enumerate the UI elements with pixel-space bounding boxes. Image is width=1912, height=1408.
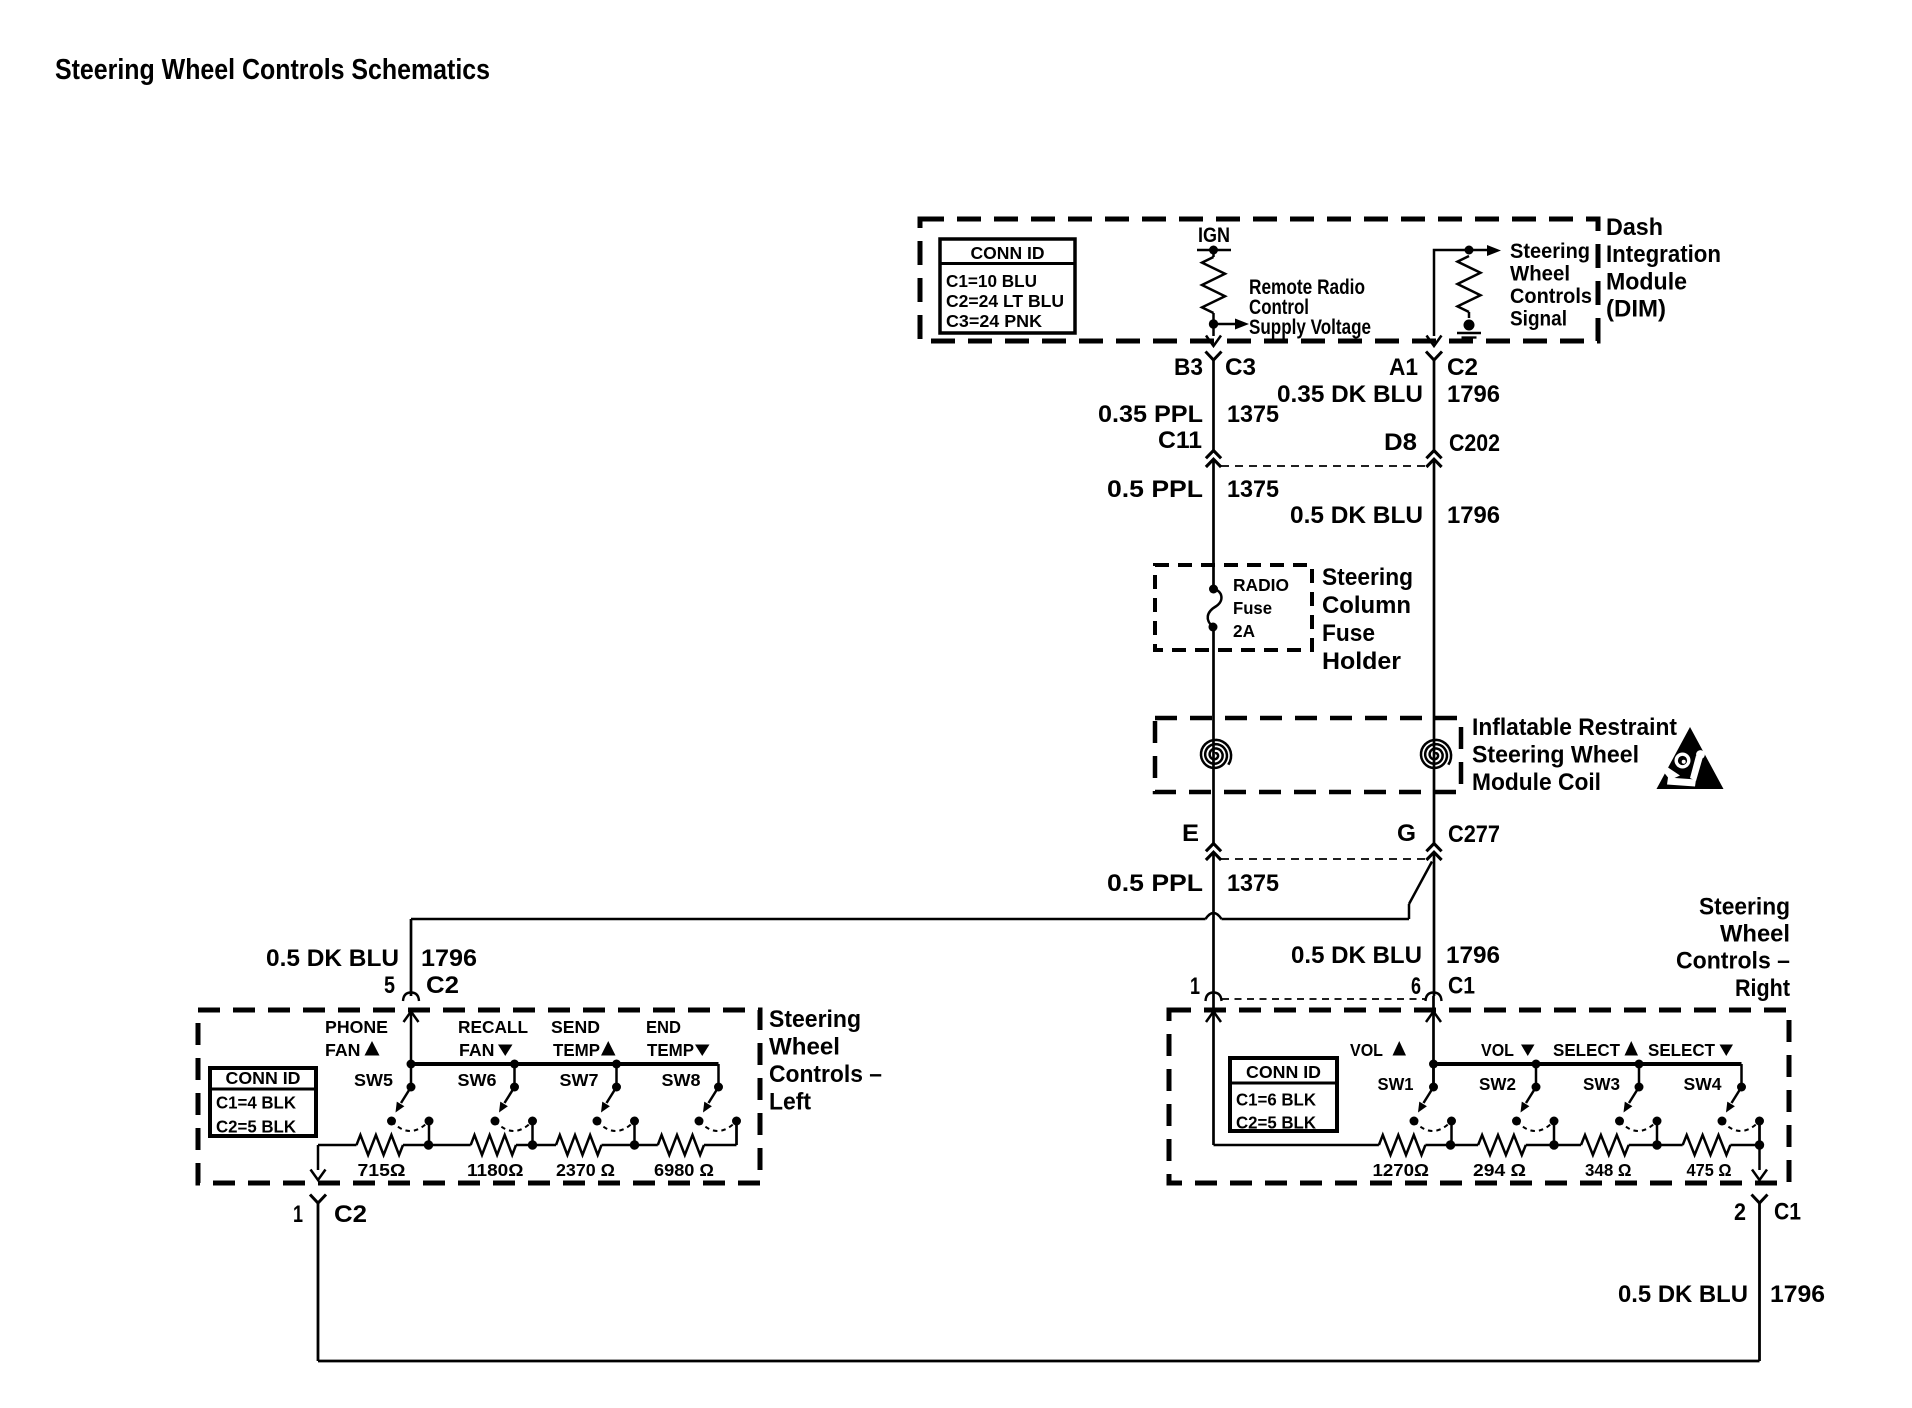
svg-text:6980 Ω: 6980 Ω (654, 1160, 714, 1180)
svg-text:0.5 DK BLU: 0.5 DK BLU (1291, 942, 1422, 969)
svg-text:RADIO: RADIO (1233, 575, 1289, 595)
svg-text:A1: A1 (1389, 354, 1418, 381)
svg-text:Steering Wheel: Steering Wheel (1472, 742, 1639, 769)
svg-text:294 Ω: 294 Ω (1473, 1160, 1526, 1180)
svg-text:END: END (646, 1017, 681, 1037)
svg-text:6: 6 (1411, 973, 1421, 1000)
svg-text:Steering Wheel Controls Schema: Steering Wheel Controls Schematics (55, 54, 490, 86)
svg-text:348 Ω: 348 Ω (1585, 1160, 1632, 1180)
svg-text:C1=6 BLK: C1=6 BLK (1236, 1090, 1316, 1110)
svg-text:Dash: Dash (1606, 214, 1663, 241)
svg-text:C277: C277 (1448, 821, 1500, 848)
svg-text:C2: C2 (426, 972, 459, 999)
svg-text:1180Ω: 1180Ω (467, 1160, 524, 1180)
svg-text:TEMP: TEMP (553, 1040, 600, 1060)
svg-text:C2=5 BLK: C2=5 BLK (1236, 1113, 1316, 1133)
svg-text:FAN: FAN (325, 1040, 361, 1060)
svg-text:Wheel: Wheel (1720, 921, 1790, 948)
svg-text:G: G (1397, 820, 1416, 847)
svg-text:1796: 1796 (1447, 381, 1500, 408)
svg-text:Steering: Steering (1699, 894, 1790, 921)
svg-text:PHONE: PHONE (325, 1017, 388, 1037)
svg-text:C202: C202 (1449, 430, 1500, 457)
svg-text:0.5 DK BLU: 0.5 DK BLU (1618, 1281, 1748, 1308)
svg-text:Holder: Holder (1322, 648, 1401, 675)
svg-text:Module: Module (1606, 269, 1687, 296)
svg-text:CONN ID: CONN ID (971, 243, 1045, 263)
svg-text:2370 Ω: 2370 Ω (556, 1160, 615, 1180)
svg-text:CONN ID: CONN ID (226, 1068, 301, 1088)
svg-text:SW7: SW7 (560, 1070, 599, 1090)
svg-text:5: 5 (384, 972, 395, 999)
svg-text:1270Ω: 1270Ω (1373, 1160, 1430, 1180)
svg-text:0.5 DK BLU: 0.5 DK BLU (1290, 502, 1423, 529)
svg-text:SELECT: SELECT (1553, 1040, 1620, 1060)
svg-text:Fuse: Fuse (1233, 598, 1272, 618)
svg-text:SW6: SW6 (458, 1070, 497, 1090)
svg-text:TEMP: TEMP (647, 1040, 694, 1060)
svg-text:1375: 1375 (1227, 476, 1279, 503)
svg-text:0.5 PPL: 0.5 PPL (1107, 870, 1203, 897)
svg-text:C3: C3 (1225, 354, 1256, 381)
svg-text:Left: Left (769, 1089, 811, 1116)
svg-text:D8: D8 (1384, 429, 1417, 456)
svg-text:C1=4 BLK: C1=4 BLK (216, 1093, 296, 1113)
svg-text:Wheel: Wheel (769, 1034, 840, 1061)
svg-text:C1=10 BLU: C1=10 BLU (946, 271, 1037, 291)
svg-text:2: 2 (1734, 1199, 1746, 1226)
svg-text:0.35 PPL: 0.35 PPL (1098, 401, 1203, 428)
svg-text:1796: 1796 (1770, 1281, 1825, 1308)
svg-text:Column: Column (1322, 592, 1411, 619)
svg-text:VOL: VOL (1350, 1040, 1383, 1060)
svg-text:CONN ID: CONN ID (1246, 1062, 1321, 1082)
svg-text:1375: 1375 (1227, 870, 1279, 897)
svg-text:Integration: Integration (1606, 241, 1721, 268)
svg-text:Wheel: Wheel (1510, 263, 1570, 286)
svg-text:SW4: SW4 (1684, 1074, 1722, 1094)
svg-text:1796: 1796 (421, 945, 477, 972)
svg-text:Steering: Steering (1322, 564, 1413, 591)
svg-text:Right: Right (1735, 975, 1790, 1002)
svg-text:RECALL: RECALL (458, 1017, 528, 1037)
svg-text:(DIM): (DIM) (1606, 296, 1666, 323)
svg-text:SW2: SW2 (1479, 1074, 1516, 1094)
svg-text:Controls –: Controls – (769, 1061, 882, 1088)
svg-text:0.35 DK BLU: 0.35 DK BLU (1277, 381, 1423, 408)
svg-text:E: E (1182, 820, 1199, 847)
svg-text:475 Ω: 475 Ω (1687, 1160, 1732, 1180)
svg-text:C2=24 LT BLU: C2=24 LT BLU (946, 291, 1064, 311)
svg-text:C1: C1 (1448, 973, 1475, 1000)
svg-text:Steering: Steering (769, 1006, 861, 1033)
svg-text:C3=24 PNK: C3=24 PNK (946, 311, 1042, 331)
svg-text:715Ω: 715Ω (358, 1160, 406, 1180)
svg-text:C2: C2 (1447, 354, 1478, 381)
svg-text:VOL: VOL (1481, 1040, 1514, 1060)
svg-text:SEND: SEND (551, 1017, 600, 1037)
svg-text:C2: C2 (334, 1201, 367, 1228)
svg-text:1: 1 (1190, 973, 1200, 1000)
svg-text:SW5: SW5 (354, 1070, 393, 1090)
svg-text:C2=5 BLK: C2=5 BLK (216, 1117, 296, 1137)
svg-text:1796: 1796 (1447, 502, 1500, 529)
svg-text:1375: 1375 (1227, 401, 1279, 428)
svg-text:1: 1 (293, 1201, 303, 1228)
svg-text:Controls: Controls (1510, 285, 1592, 308)
svg-text:0.5 PPL: 0.5 PPL (1107, 476, 1203, 503)
svg-text:1796: 1796 (1446, 942, 1500, 969)
svg-text:FAN: FAN (459, 1040, 495, 1060)
svg-text:Steering: Steering (1510, 240, 1590, 263)
svg-text:Module Coil: Module Coil (1472, 769, 1601, 796)
svg-text:0.5 DK BLU: 0.5 DK BLU (266, 945, 399, 972)
svg-text:C11: C11 (1158, 427, 1202, 454)
svg-text:SW1: SW1 (1378, 1074, 1414, 1094)
svg-text:IGN: IGN (1198, 224, 1230, 247)
svg-text:Signal: Signal (1510, 308, 1567, 331)
svg-text:SW8: SW8 (662, 1070, 701, 1090)
svg-text:Inflatable Restraint: Inflatable Restraint (1472, 714, 1677, 741)
svg-text:2A: 2A (1233, 621, 1255, 641)
svg-text:SELECT: SELECT (1648, 1040, 1715, 1060)
svg-text:C1: C1 (1774, 1199, 1801, 1226)
svg-text:SW3: SW3 (1583, 1074, 1620, 1094)
svg-text:B3: B3 (1174, 354, 1203, 381)
svg-text:Controls –: Controls – (1676, 948, 1790, 975)
svg-text:Fuse: Fuse (1322, 620, 1375, 647)
svg-text:Supply Voltage: Supply Voltage (1249, 316, 1371, 339)
